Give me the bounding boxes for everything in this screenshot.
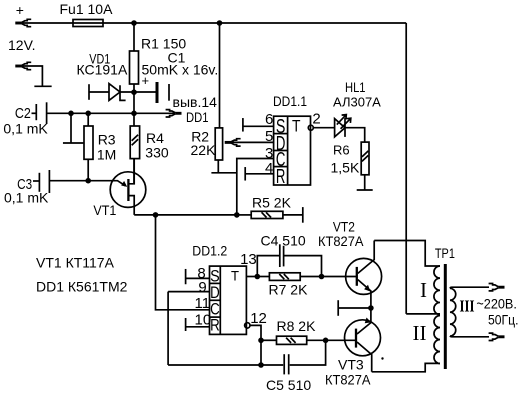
- wire VD1 anode: [89, 91, 109, 93]
- junction R7 C4 VT2 base: [319, 274, 325, 280]
- ground emitters: [337, 300, 339, 316]
- svg-text:9: 9: [198, 279, 206, 296]
- resistor R6: [361, 142, 369, 175]
- wire R8 right lead: [307, 339, 326, 341]
- terminal output top: [489, 284, 505, 291]
- wire DD1.2 pin10: [186, 326, 210, 328]
- svg-text:КТ827А: КТ827А: [325, 372, 371, 388]
- wire R4 top lead: [133, 113, 135, 126]
- junction supply R4: [131, 111, 137, 117]
- svg-text:12V.: 12V.: [8, 37, 36, 53]
- wire C4 right branch: [284, 256, 322, 277]
- wire ground stub: [70, 113, 72, 143]
- wire R6 bottom: [364, 175, 366, 190]
- svg-text:T: T: [231, 267, 239, 283]
- svg-text:S: S: [210, 268, 220, 286]
- terminal X2 -12V: [15, 62, 31, 69]
- junction node zener: [131, 89, 137, 95]
- svg-text:+: +: [142, 73, 150, 88]
- transformer TP1 core: [444, 264, 447, 369]
- svg-text:R6: R6: [333, 143, 350, 158]
- wire to VT3 base: [326, 339, 356, 341]
- svg-text:0,1 mK: 0,1 mK: [3, 120, 48, 136]
- node DD1.2 pin12 output circle: [245, 323, 250, 328]
- svg-text:C5 510: C5 510: [266, 377, 311, 393]
- wire C4 left branch: [257, 256, 279, 277]
- svg-text:КТ827А: КТ827А: [318, 233, 364, 249]
- ground R6: [357, 189, 373, 191]
- wire rail to R2: [219, 23, 221, 128]
- wire VD1 cathode to C1: [120, 91, 156, 93]
- svg-text:330: 330: [145, 144, 169, 160]
- op-amp U1 DD1.1 flip-flop box: [274, 116, 311, 188]
- junction pin12 C5: [258, 362, 264, 368]
- wire pin13 out: [246, 276, 257, 278]
- svg-text:1M: 1M: [97, 147, 116, 163]
- svg-text:R3: R3: [98, 131, 116, 147]
- wire pin2 to HL1: [313, 127, 334, 129]
- ground supply line: [63, 142, 83, 144]
- wire R1 bottom to node: [133, 84, 135, 113]
- resistor R2: [215, 128, 222, 160]
- svg-text:50mK x 16v.: 50mK x 16v.: [142, 62, 219, 78]
- wire R5 right lead: [283, 214, 303, 216]
- resistor R1: [130, 51, 139, 84]
- wire right rail down: [405, 23, 407, 314]
- wire R4 bottom lead: [133, 159, 135, 185]
- svg-text:10: 10: [195, 312, 212, 329]
- op-amp U2 DD1.2 flip-flop box: [210, 266, 247, 334]
- resistor R3: [84, 126, 93, 159]
- wire R3 bottom lead: [87, 159, 89, 180]
- wire DD1.1 pin6: [243, 125, 274, 127]
- svg-text:1,5K: 1,5K: [331, 160, 360, 176]
- wire C3 to node: [49, 180, 88, 182]
- junction rail R1: [131, 20, 137, 26]
- svg-text:DD1: DD1: [186, 109, 209, 125]
- transistor VT1: [88, 159, 146, 215]
- svg-text:DD1.1: DD1.1: [273, 93, 307, 109]
- inductor winding III secondary: [450, 288, 456, 336]
- ground DD1.1 pin6: [242, 118, 244, 132]
- svg-text:22K: 22K: [191, 142, 217, 158]
- svg-text:III: III: [460, 296, 475, 315]
- svg-text:5: 5: [265, 128, 273, 145]
- wire R8 left lead: [261, 339, 277, 341]
- svg-text:R7 2K: R7 2K: [269, 281, 309, 297]
- junction R8 C5 VT3 base: [323, 338, 329, 344]
- svg-text:Fu1 10A: Fu1 10A: [60, 1, 114, 17]
- fuse Fu1: [73, 20, 103, 27]
- svg-text:13: 13: [240, 251, 257, 268]
- ground DD1.1 pin4: [244, 167, 246, 181]
- wire pin12 down: [250, 325, 261, 365]
- transistor VT2: [346, 241, 382, 309]
- wire DD1.2 pin8: [186, 277, 210, 279]
- wire to DD1.2 pin11: [156, 215, 210, 310]
- junction pin13: [254, 274, 260, 280]
- terminal to DD1 pin14: [166, 110, 182, 117]
- wire R5 left lead: [237, 214, 251, 216]
- inductor winding II primary: [434, 316, 440, 364]
- wire minus terminal: [22, 66, 43, 86]
- capacitor C5: [284, 354, 289, 374]
- wire R1 top lead: [133, 23, 135, 51]
- wire R7 left lead: [257, 276, 269, 278]
- wire R2 bottom: [217, 160, 219, 173]
- transistor VT3: [345, 308, 381, 372]
- wire input to fuse: [22, 22, 73, 24]
- wire DD1.2 pin9: [168, 291, 209, 293]
- svg-text:R8 2K: R8 2K: [277, 318, 317, 334]
- svg-text:D: D: [210, 284, 220, 302]
- svg-text:VT1 КТ117А: VT1 КТ117А: [36, 255, 115, 271]
- wire top +12V rail: [103, 22, 406, 24]
- wire secondary top lead: [450, 287, 489, 288]
- zener VD1: [109, 84, 126, 101]
- svg-text:0,1 mK: 0,1 mK: [4, 190, 49, 206]
- capacitor C3: [33, 170, 49, 193]
- svg-text:T: T: [292, 118, 301, 136]
- svg-text:ТР1: ТР1: [435, 245, 455, 261]
- wire oscillator output: [134, 214, 237, 216]
- ground minus terminal: [34, 85, 51, 87]
- wire DD1.1 pin4: [245, 173, 273, 175]
- stray dot: [381, 357, 383, 359]
- svg-text:11: 11: [195, 295, 211, 312]
- svg-text:VT2: VT2: [333, 218, 355, 234]
- resistor R8: [277, 336, 307, 344]
- svg-text:I: I: [420, 278, 427, 302]
- LED HL1: [335, 115, 351, 137]
- node DD1.1 pin2 output circle: [308, 125, 313, 130]
- wiper R2: [225, 139, 241, 146]
- junction rail R2: [217, 20, 223, 26]
- inductor winding I primary: [434, 266, 440, 315]
- svg-text:+: +: [16, 2, 24, 18]
- wire to DD1.1 pin3: [237, 159, 274, 215]
- ground VD1 anode: [88, 84, 90, 100]
- svg-text:КС191А: КС191А: [77, 61, 128, 77]
- capacitor C4: [280, 244, 284, 267]
- junction osc to DD1.2: [153, 212, 159, 218]
- svg-text:6: 6: [265, 111, 273, 128]
- junction pin12 R8: [258, 338, 264, 344]
- svg-text:R5 2K: R5 2K: [252, 195, 292, 211]
- junction osc to DD1.1: [234, 212, 240, 218]
- svg-text:2: 2: [312, 110, 320, 127]
- resistor R7: [269, 273, 300, 281]
- junction supply ground stub: [68, 111, 74, 117]
- svg-text:50Гц.: 50Гц.: [488, 312, 519, 328]
- wire to transformer center tap: [406, 313, 440, 315]
- svg-text:II: II: [413, 321, 427, 345]
- ground DD1.2 pin10: [185, 318, 187, 331]
- wire secondary bottom lead: [450, 335, 489, 338]
- svg-text:АЛ307А: АЛ307А: [333, 95, 381, 110]
- capacitor C2: [32, 102, 47, 124]
- wire HL1 to R6: [345, 128, 365, 142]
- terminal X1 +12V: [15, 19, 31, 26]
- wire R3 top lead: [87, 113, 89, 126]
- wire VT3 collector to winding II: [372, 363, 440, 371]
- wire wiper to DD1.1 pin5: [231, 141, 274, 143]
- terminal output bottom: [489, 333, 505, 340]
- resistor R5: [251, 211, 283, 218]
- svg-text:R: R: [210, 316, 220, 334]
- wire emitters to ground: [338, 307, 371, 309]
- wire C5 to R8 right: [290, 340, 326, 365]
- junction R3 C3 emitter: [85, 178, 91, 184]
- svg-text:VT1: VT1: [93, 202, 116, 218]
- wire bottom to C5: [168, 364, 283, 366]
- svg-text:выв.14: выв.14: [173, 94, 218, 110]
- svg-text:DD1.2: DD1.2: [192, 243, 227, 259]
- junction emitters: [368, 305, 374, 311]
- svg-text:HL1: HL1: [345, 79, 366, 95]
- wire supply line: [47, 112, 175, 114]
- svg-text:VT3: VT3: [338, 356, 364, 372]
- resistor R4: [130, 126, 139, 159]
- ground R5: [302, 207, 304, 223]
- svg-text:~220В.: ~220В.: [476, 296, 517, 312]
- wire VT2 collector to winding I: [374, 241, 440, 267]
- junction supply R3: [85, 111, 91, 117]
- svg-text:R: R: [276, 166, 286, 188]
- wire pin9 down: [167, 292, 169, 365]
- capacitor C1: [156, 82, 170, 103]
- wire R7 right lead: [300, 276, 321, 278]
- svg-text:DD1 К561ТМ2: DD1 К561ТМ2: [36, 279, 128, 295]
- ground DD1.2 pin8: [185, 269, 187, 284]
- wire to VT2 base: [322, 276, 357, 278]
- ground R2: [211, 172, 236, 174]
